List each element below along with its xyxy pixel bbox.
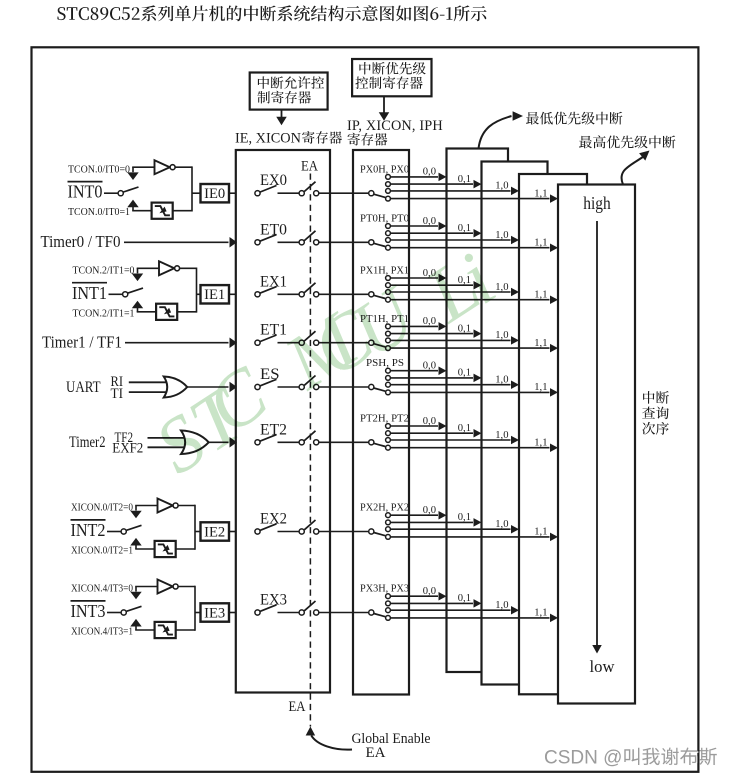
contact 0,0 <box>386 424 391 429</box>
edge-select switch INT3 <box>121 610 126 615</box>
caption box: interrupt enable control register <box>250 73 328 110</box>
junction wire <box>194 505 196 550</box>
junction wire <box>194 586 196 631</box>
svg-text:TI: TI <box>111 386 124 402</box>
wire to EA switch <box>278 192 300 194</box>
contact 1,1 <box>386 245 391 250</box>
wire to priority box D <box>390 617 549 619</box>
svg-text:1,1: 1,1 <box>534 608 547 619</box>
wire to EA switch <box>278 441 300 443</box>
wire inverter out to junction <box>175 166 192 168</box>
svg-text:0,0: 0,0 <box>423 316 436 327</box>
label highest priority interrupt <box>579 135 676 148</box>
svg-text:IE3: IE3 <box>204 605 225 621</box>
wire to priority box B <box>390 521 473 523</box>
caption box: interrupt priority control register <box>352 59 431 96</box>
caption box2 text line1 <box>359 62 425 75</box>
wire to priority box A <box>390 514 438 516</box>
svg-text:1,1: 1,1 <box>534 382 547 393</box>
selector blade <box>374 295 386 298</box>
wire to priority box B <box>390 333 473 335</box>
caption box2 text line2 <box>355 76 422 89</box>
wire to priority box B <box>390 432 473 434</box>
wire to priority box D <box>390 247 549 249</box>
svg-text:TCON.2/IT1=1: TCON.2/IT1=1 <box>73 307 135 319</box>
wire to EA switch <box>278 612 300 614</box>
wire bottom path to edge detector <box>135 548 155 550</box>
arrow to lowest priority caption <box>479 116 512 149</box>
wire to priority box A <box>390 425 438 427</box>
wire OR out to IE column <box>209 441 229 443</box>
wire to EA switch <box>278 293 300 295</box>
wire to priority box D <box>390 447 549 449</box>
junction wire <box>196 268 198 313</box>
Global Enable arrow <box>311 736 352 750</box>
svg-text:IE1: IE1 <box>204 287 225 303</box>
wire to priority box D <box>390 391 549 393</box>
wire EA switch to priority selector pole <box>319 192 369 194</box>
falling-edge detector INT0 <box>152 203 173 219</box>
wire Timer1 to IE column <box>125 342 229 344</box>
wire IE1 to IE column <box>229 293 236 295</box>
edge contact (up arrow) <box>132 301 143 309</box>
svg-text:1,0: 1,0 <box>495 600 508 611</box>
contact 0,0 <box>386 513 391 518</box>
wire to EA switch <box>278 531 300 533</box>
wire edge detector out to junction <box>177 311 196 313</box>
svg-text:PT2H, PT2: PT2H, PT2 <box>360 414 409 425</box>
inverter (level mode) INT3 <box>158 580 173 594</box>
contact 1,1 <box>386 535 391 540</box>
wire to priority box D <box>390 198 549 200</box>
wire bottom path to edge detector <box>135 629 155 631</box>
svg-text:XICON.0/IT2=1: XICON.0/IT2=1 <box>71 545 133 557</box>
contact 0,1 <box>386 231 391 236</box>
wire Timer0 to IE column <box>124 241 229 243</box>
wire INT2 to switch <box>107 531 121 533</box>
svg-text:0,1: 0,1 <box>458 174 471 185</box>
svg-text:1,0: 1,0 <box>495 375 508 386</box>
wire IE3 to IE column <box>229 612 236 614</box>
svg-text:UART: UART <box>66 379 101 396</box>
wire RI to OR gate <box>129 381 167 383</box>
svg-text:0,0: 0,0 <box>423 505 436 516</box>
svg-text:INT1: INT1 <box>72 283 107 303</box>
wire to priority box B <box>390 232 473 234</box>
contact 1,0 <box>386 527 391 532</box>
wire inverter out to junction <box>180 267 197 269</box>
wire to priority box A <box>390 595 438 597</box>
svg-text:TCON.2/IT1=0: TCON.2/IT1=0 <box>73 265 135 277</box>
svg-text:0,1: 0,1 <box>458 368 471 379</box>
svg-text:1,1: 1,1 <box>534 527 547 538</box>
svg-text:Timer0 / TF0: Timer0 / TF0 <box>41 232 121 251</box>
svg-text:high: high <box>583 193 611 213</box>
wire edge detector out to junction <box>176 629 195 631</box>
edge-select switch INT2 <box>121 529 126 534</box>
svg-text:EA: EA <box>301 159 318 175</box>
svg-text:PX0H, PX0: PX0H, PX0 <box>360 164 409 175</box>
contact 0,1 <box>386 182 391 187</box>
wire TI to OR gate <box>129 391 167 393</box>
svg-text:1,0: 1,0 <box>495 330 508 341</box>
contact 0,1 <box>386 376 391 381</box>
EA master switch <box>299 292 304 297</box>
svg-text:Timer1 / TF1: Timer1 / TF1 <box>42 332 122 351</box>
wire OR out to IE column <box>187 386 228 388</box>
priority order arrow high to low <box>596 221 598 645</box>
level contact (down arrow) <box>135 587 137 592</box>
junction wire <box>191 166 193 211</box>
arrow to highest priority caption <box>621 157 643 185</box>
wire TF2 to OR gate <box>148 437 185 439</box>
wire EA switch to priority selector pole <box>319 441 369 443</box>
contact 1,0 <box>386 290 391 295</box>
svg-text:0,1: 0,1 <box>458 223 471 234</box>
svg-text:1,1: 1,1 <box>534 290 547 301</box>
wire to priority box A <box>390 370 438 372</box>
wire to priority box D <box>390 536 549 538</box>
EA master switch <box>299 240 304 245</box>
svg-text:EA: EA <box>366 745 386 761</box>
wire edge detector out to junction <box>176 548 195 550</box>
EA master switch <box>299 340 304 345</box>
svg-text:Global Enable: Global Enable <box>352 731 431 747</box>
EA master switch <box>299 440 304 445</box>
svg-text:1,0: 1,0 <box>495 430 508 441</box>
wire to priority box B <box>390 183 473 185</box>
interrupt flag box IE1 <box>201 285 230 303</box>
selector blade <box>374 194 386 197</box>
EA master switch <box>299 529 304 534</box>
svg-text:INT3: INT3 <box>71 601 106 621</box>
wire top path to inverter <box>132 166 155 168</box>
wire to EA switch <box>278 342 300 344</box>
svg-text:INT0: INT0 <box>68 182 103 202</box>
label lowest priority interrupt <box>526 112 623 125</box>
wire top path to inverter <box>135 505 158 507</box>
contact 1,0 <box>386 338 391 343</box>
selector blade <box>374 243 386 246</box>
svg-text:1,0: 1,0 <box>495 181 508 192</box>
contact 0,1 <box>386 431 391 436</box>
contact 0,0 <box>386 276 391 281</box>
wire to EA switch <box>278 241 300 243</box>
label interrupt query order line1 <box>643 391 669 404</box>
wire to priority box B <box>390 377 473 379</box>
IP, XICON, IPH register column box <box>353 150 409 695</box>
contact 1,0 <box>386 438 391 443</box>
wire EXF2 to OR gate <box>148 446 185 448</box>
wire top path to inverter <box>135 586 158 588</box>
contact 1,1 <box>386 346 391 351</box>
contact 0,1 <box>386 331 391 336</box>
level contact (down arrow) <box>137 268 139 273</box>
contact 1,0 <box>386 189 391 194</box>
selector blade <box>374 533 386 536</box>
edge contact (up arrow) <box>127 200 138 208</box>
selector blade <box>374 344 386 347</box>
falling-edge detector INT3 <box>155 622 176 638</box>
wire bottom path to edge detector <box>137 311 157 313</box>
wire INT3 to switch <box>107 612 121 614</box>
falling-edge detector INT1 <box>156 304 177 320</box>
svg-text:0,0: 0,0 <box>423 416 436 427</box>
wire to priority box C <box>390 528 510 530</box>
svg-text:INT2: INT2 <box>71 520 106 540</box>
OR gate Timer2 <box>181 431 209 455</box>
wire to priority box B <box>390 602 473 604</box>
interrupt flag box IE3 <box>201 603 230 621</box>
wire to priority box A <box>390 277 438 279</box>
arrow from caption box1 down to IE column header <box>281 110 283 118</box>
edge contact (up arrow) <box>130 619 141 627</box>
interrupt flag box IE2 <box>201 522 230 540</box>
EA global enable dashed line <box>309 174 311 727</box>
inverter (level mode) INT0 <box>155 160 170 174</box>
wire inverter out to junction <box>178 505 195 507</box>
priority level box C <box>519 174 587 694</box>
priority level box B <box>482 162 548 685</box>
IE, XICON register column box <box>236 150 330 693</box>
inverter (level mode) INT2 <box>158 499 173 513</box>
wire inverter out to junction <box>178 586 195 588</box>
wire to EA switch <box>278 386 300 388</box>
contact 1,1 <box>386 390 391 395</box>
svg-text:CSDN @: CSDN @ <box>544 748 622 769</box>
wire EA switch to priority selector pole <box>319 612 369 614</box>
wire to priority box C <box>390 384 510 386</box>
wire EA switch to priority selector pole <box>319 386 369 388</box>
level contact (down arrow) <box>132 167 134 172</box>
title text <box>57 5 486 21</box>
wire IE0 to IE column <box>229 192 236 194</box>
contact 0,1 <box>386 601 391 606</box>
interrupt flag box IE0 <box>201 184 230 202</box>
contact 1,0 <box>386 238 391 243</box>
svg-text:IE, XICON: IE, XICON <box>235 131 301 147</box>
label interrupt query order line3 <box>642 422 669 435</box>
contact 1,0 <box>386 382 391 387</box>
wire to priority box B <box>390 284 473 286</box>
svg-text:IP, XICON, IPH: IP, XICON, IPH <box>347 118 443 134</box>
OR gate UART <box>164 377 188 398</box>
svg-text:TCON.0/IT0=1: TCON.0/IT0=1 <box>68 206 130 218</box>
svg-text:1,0: 1,0 <box>495 230 508 241</box>
svg-text:PX2H, PX2: PX2H, PX2 <box>360 503 409 514</box>
level contact (down arrow) <box>135 506 137 511</box>
wire to priority box C <box>390 291 510 293</box>
wire EA switch to priority selector pole <box>319 293 369 295</box>
svg-text:XICON.4/IT3=1: XICON.4/IT3=1 <box>71 626 133 638</box>
edge-select switch INT1 <box>123 292 128 297</box>
svg-text:Timer2: Timer2 <box>69 434 106 451</box>
contact 1,1 <box>386 297 391 302</box>
svg-text:0,0: 0,0 <box>423 361 436 372</box>
edge contact (up arrow) <box>130 538 141 546</box>
svg-text:IE0: IE0 <box>204 186 225 202</box>
wire to priority box C <box>390 339 510 341</box>
contact 0,0 <box>386 224 391 229</box>
contact 0,0 <box>386 368 391 373</box>
contact 1,1 <box>386 616 391 621</box>
svg-text:0,0: 0,0 <box>423 216 436 227</box>
svg-text:1,0: 1,0 <box>495 519 508 530</box>
EA master switch <box>299 191 304 196</box>
svg-text:0,1: 0,1 <box>458 593 471 604</box>
svg-text:XICON.0/IT2=0: XICON.0/IT2=0 <box>71 502 133 514</box>
wire to priority box A <box>390 225 438 227</box>
contact 1,1 <box>386 445 391 450</box>
svg-text:PX3H, PX3: PX3H, PX3 <box>360 584 409 595</box>
svg-text:EXF2: EXF2 <box>112 441 143 457</box>
wire to priority box D <box>390 347 549 349</box>
caption box1 text line2 <box>257 91 311 104</box>
wire to priority box C <box>390 190 510 192</box>
wire INT0 to switch <box>104 192 118 194</box>
contact 0,0 <box>386 594 391 599</box>
wire INT1 to switch <box>109 293 123 295</box>
wire edge detector out to junction <box>173 210 192 212</box>
EA master switch <box>299 610 304 615</box>
svg-text:ES: ES <box>260 366 280 383</box>
wire bottom path to edge detector <box>132 210 152 212</box>
edge-select switch INT0 <box>118 191 123 196</box>
wire to priority box C <box>390 609 510 611</box>
svg-text:XICON.4/IT3=0: XICON.4/IT3=0 <box>71 583 133 595</box>
EA master switch <box>299 384 304 389</box>
svg-text:1,1: 1,1 <box>534 188 547 199</box>
svg-text:0,1: 0,1 <box>458 512 471 523</box>
arrow from caption box2 down to IP column header <box>383 96 385 112</box>
svg-text:low: low <box>590 657 616 676</box>
svg-text:0,0: 0,0 <box>423 586 436 597</box>
wire EA switch to priority selector pole <box>319 241 369 243</box>
wire EA switch to priority selector pole <box>319 531 369 533</box>
wire to priority box C <box>390 439 510 441</box>
svg-text:TCON.0/IT0=0: TCON.0/IT0=0 <box>68 163 130 175</box>
wire EA switch to priority selector pole <box>319 342 369 344</box>
contact 1,0 <box>386 608 391 613</box>
priority level box D <box>558 185 635 704</box>
contact 0,1 <box>386 520 391 525</box>
watermark STC MCU Li <box>140 235 510 490</box>
caption box1 text line1 <box>258 76 324 89</box>
selector blade <box>374 614 386 617</box>
selector blade <box>374 443 386 446</box>
inverter (level mode) INT1 <box>159 261 174 275</box>
priority level box A <box>447 149 509 673</box>
wire to priority box A <box>390 176 438 178</box>
svg-text:IE2: IE2 <box>204 524 225 540</box>
selector blade <box>374 388 386 391</box>
svg-text:PT0H, PT0: PT0H, PT0 <box>360 214 409 225</box>
svg-text:0,0: 0,0 <box>423 167 436 178</box>
wire to priority box A <box>390 325 438 327</box>
contact 0,1 <box>386 283 391 288</box>
wire to priority box D <box>390 299 549 301</box>
svg-text:1,1: 1,1 <box>534 438 547 449</box>
contact 0,0 <box>386 175 391 180</box>
falling-edge detector INT2 <box>155 541 176 557</box>
wire top path to inverter <box>137 267 160 269</box>
svg-text:1,1: 1,1 <box>534 238 547 249</box>
label interrupt query order line2 <box>642 407 669 420</box>
contact 0,0 <box>386 324 391 329</box>
svg-text:1,1: 1,1 <box>534 338 547 349</box>
wire IE2 to IE column <box>229 531 236 533</box>
contact 1,1 <box>386 196 391 201</box>
wire to priority box C <box>390 239 510 241</box>
svg-text:0,1: 0,1 <box>458 423 471 434</box>
svg-text:EA: EA <box>289 699 306 715</box>
